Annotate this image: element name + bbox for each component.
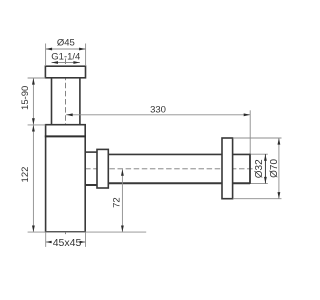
dimension 45x45 line with arrows [46, 241, 52, 243]
svg-text:15-90: 15-90 [20, 86, 31, 110]
svg-text:330: 330 [150, 104, 166, 115]
dimension Ø70 line with arrows [278, 138, 280, 199]
dimension 15-90 line with arrows [32, 78, 34, 125]
coupling nut [97, 149, 108, 188]
inlet pipe right edge [79, 78, 81, 125]
bottom baseline extension line [28, 231, 147, 233]
svg-text:122: 122 [20, 167, 31, 183]
vertical centerline of inlet pipe [65, 59, 67, 237]
svg-text:72: 72 [111, 197, 122, 208]
svg-text:Ø70: Ø70 [269, 159, 280, 178]
extension line at body top (left) [28, 124, 46, 126]
svg-text:Ø45: Ø45 [57, 38, 75, 49]
svg-text:Ø32: Ø32 [254, 159, 265, 178]
outlet pipe top edge [108, 153, 222, 155]
dimension Ø45 line with arrows [46, 48, 86, 50]
dimension 45x45 extension lines [45, 232, 47, 247]
dimension Ø32 double arrow [264, 154, 266, 183]
svg-text:G1-1/4: G1-1/4 [51, 51, 80, 62]
dimension Ø45 extension lines [45, 44, 47, 67]
svg-text:45x45: 45x45 [53, 237, 82, 249]
outlet pipe bottom edge [108, 182, 222, 184]
dimension 330 line with arrows [66, 114, 250, 116]
connector stub between body and nut [85, 151, 97, 153]
dimension 330 right extension line [249, 110, 251, 153]
trap body [46, 125, 86, 232]
dimension 72 line with arrows [121, 169, 123, 232]
dimension Ø70 extension lines [233, 137, 282, 139]
wall flange (rosette) [222, 138, 233, 199]
top flange (wall rosette) [45, 66, 85, 78]
dimension G1-1/4 line with arrows [52, 62, 80, 64]
dimension Ø32 extension lines [251, 153, 268, 155]
extension line at flange bottom (left) [28, 77, 46, 79]
dimension 122 line with arrows [32, 125, 34, 232]
body nut divider line [45, 135, 86, 137]
wall stub pipe [233, 153, 250, 155]
horizontal centerline of outlet pipe [77, 168, 253, 170]
inlet pipe left edge [51, 78, 53, 125]
